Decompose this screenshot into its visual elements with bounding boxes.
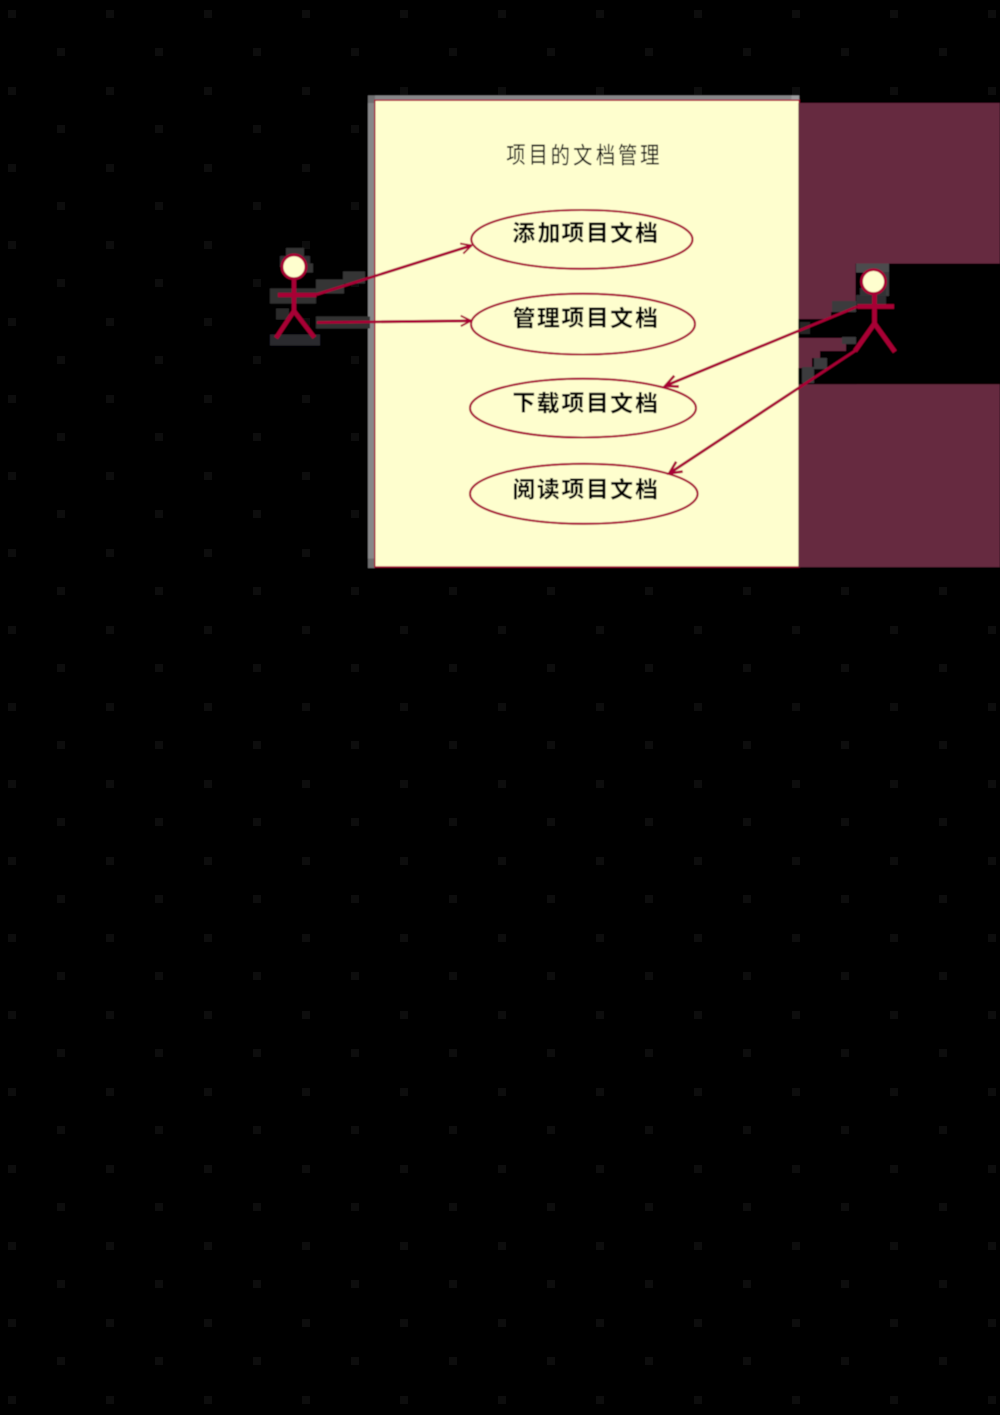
association right actor to 阅读项目文档	[669, 351, 855, 474]
association left actor to 添加项目文档	[317, 246, 472, 295]
use case 管理项目文档	[471, 294, 695, 355]
use case 下载项目文档	[470, 379, 696, 438]
gray artifact blocks left actor	[286, 248, 304, 256]
black blob upper arm along association	[798, 312, 856, 338]
actor right leg L	[855, 324, 875, 352]
actor left leg R	[294, 311, 314, 338]
association right actor to 下载项目文档	[665, 307, 857, 386]
gray band left bottom tip	[368, 559, 375, 569]
actor left head	[282, 255, 306, 279]
actor right arms	[858, 304, 895, 309]
actor right body	[872, 295, 877, 324]
actor left body	[292, 280, 297, 312]
maroon background block	[798, 103, 1000, 567]
gray band top	[368, 96, 799, 101]
actor left arms	[278, 293, 317, 298]
actor right leg R	[875, 324, 895, 352]
actor right head	[862, 270, 886, 294]
gray band left	[368, 103, 375, 568]
actor left leg L	[276, 311, 294, 338]
use case 添加项目文档	[471, 210, 692, 269]
black blob lower arm along association	[798, 344, 856, 384]
title 项目的文档管理	[507, 144, 525, 165]
gray band top light tip	[792, 96, 800, 101]
use case 阅读项目文档	[470, 464, 698, 524]
system boundary 项目的文档管理	[375, 100, 799, 567]
association left actor to 管理项目文档	[317, 321, 471, 323]
gray band corner block	[368, 96, 375, 104]
black blob main (transparent region)	[856, 264, 1000, 385]
gray artifact blocks right actor	[856, 264, 889, 273]
